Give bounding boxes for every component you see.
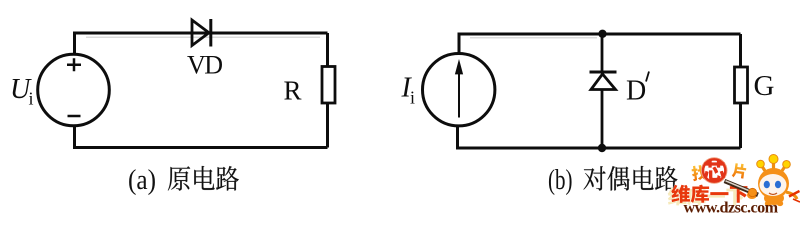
wire bottom (a) [75,127,328,148]
left leg blob [747,191,757,199]
right arm [786,192,797,199]
wire bottom (b) [458,127,741,148]
antenna stalks [761,159,786,175]
svg-text:R: R [284,76,302,106]
current source arrow [458,70,460,118]
lens circle [703,159,726,182]
diode D' cathode bar [590,71,617,74]
feet [765,201,771,206]
diode D' triangle [591,74,616,90]
red pen [789,191,800,197]
resistor G [735,67,748,103]
wire right (a) [326,33,329,148]
mascot hand on handle [748,188,756,196]
eyes [764,181,770,189]
junction dot top [598,30,606,38]
svg-text:G: G [754,70,775,102]
wire diode branch lower [601,90,604,149]
wire top (a) [75,33,328,53]
svg-text:(b): (b) [548,164,573,196]
current source I circle [423,53,495,125]
svg-text:i: i [29,89,34,109]
diode VD [192,19,211,47]
mouth [769,193,777,195]
face [760,174,787,196]
plus polarity mark [67,58,81,71]
antenna balls [757,160,765,168]
xin char in lens [703,160,725,181]
svg-text:D: D [626,76,646,107]
svg-text:(a): (a) [128,164,156,196]
weiku red text [671,185,690,203]
zhao (find) + pian stylized chars [691,163,747,182]
body [764,191,784,205]
resistor R [322,67,335,104]
magnifier handle [725,181,759,195]
svg-text:www.dzsc.com: www.dzsc.com [684,199,779,217]
minus polarity mark [68,115,81,118]
wire top (b) [459,34,741,53]
wire scan-shadow (b) [470,37,597,39]
weiku shadow text [668,187,687,205]
voltage source U circle [38,54,110,126]
wire right (b) [739,34,742,148]
wire scan-shadow (a) [86,36,320,38]
svg-text:i: i [410,88,415,108]
mascot [747,155,800,207]
head [758,168,789,199]
svg-text:VD: VD [187,51,222,80]
junction dot bottom [598,144,606,152]
wire diode branch upper [601,34,604,71]
